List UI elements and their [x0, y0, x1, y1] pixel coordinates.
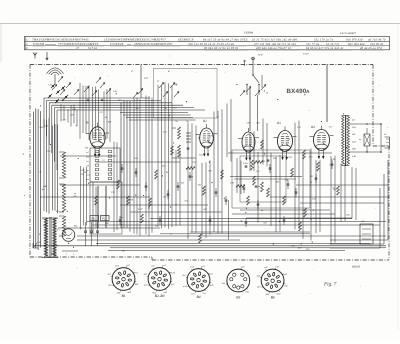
svg-text:B45045: B45045	[352, 266, 361, 269]
svg-text:u32: u32	[86, 156, 89, 159]
svg-text:B2–B0: B2–B0	[155, 294, 165, 298]
svg-text:14·47: 14·47	[303, 53, 309, 56]
svg-text:7x1: 7x1	[202, 292, 205, 295]
svg-text:09 861 08 12 91 61 99 91: 09 861 08 12 91 61 99 91	[204, 46, 239, 50]
svg-text:4NN824OU360R49R9VZ87: 4NN824OU360R49R9VZ87	[134, 42, 173, 46]
svg-text:14·47: 14·47	[258, 53, 264, 56]
svg-text:S31: S31	[310, 175, 313, 178]
svg-text:B3: B3	[236, 296, 240, 300]
svg-text:7MAUSSNM84E50CAERS36A4R97940S: 7MAUSSNM84E50CAERS36A4R97940S	[32, 37, 89, 41]
svg-text:1e9: 1e9	[86, 165, 89, 168]
svg-text:6·47-9+6(9)677: 6·47-9+6(9)677	[340, 32, 357, 35]
svg-text:P.: P.	[25, 47, 28, 50]
svg-text:a6 7a5 46 70: a6 7a5 46 70	[368, 37, 386, 41]
svg-text:CS5EE2E: CS5EE2E	[110, 42, 124, 46]
svg-text:5·17 24: 5·17 24	[88, 46, 97, 50]
svg-text:B46 x: B46 x	[52, 253, 57, 256]
svg-text:84 65 63 427 97a a1 6a1 41: 84 65 63 427 97a a1 6a1 41	[306, 46, 344, 50]
svg-text:C31: C31	[111, 191, 115, 194]
svg-text:10r: 10r	[175, 120, 178, 123]
svg-text:532 170 2a 7a: 532 170 2a 7a	[314, 37, 334, 41]
svg-text:53s: 53s	[186, 120, 189, 123]
svg-text:B6: B6	[271, 296, 275, 300]
svg-text:U3O3M: U3O3M	[33, 42, 44, 46]
svg-text:S51: S51	[184, 199, 187, 202]
svg-text:ww4: ww4	[86, 174, 90, 177]
svg-text:aB1: aB1	[352, 133, 356, 136]
svg-text:48 44 45 aa 874: 48 44 45 aa 874	[360, 46, 382, 50]
svg-text:enn: enn	[86, 179, 89, 181]
svg-text:C:: C:	[26, 38, 29, 41]
svg-text:6·3: 6·3	[57, 229, 60, 232]
svg-text:B4: B4	[197, 295, 201, 299]
svg-text:C41: C41	[256, 170, 260, 173]
svg-text:wn1: wn1	[275, 266, 279, 269]
svg-text:BX490: BX490	[287, 88, 307, 95]
svg-text:B4·: B4·	[311, 125, 316, 129]
svg-text:14204a: 14204a	[244, 31, 254, 35]
svg-text:mn1: mn1	[115, 265, 119, 268]
svg-text:a99 643 346 aa 756 07 18: a99 643 346 aa 756 07 18	[256, 46, 292, 50]
svg-text:8r1: 8r1	[183, 274, 186, 277]
svg-text:B1: B1	[86, 121, 90, 125]
svg-text:S41: S41	[198, 184, 201, 187]
svg-text:x: x	[72, 254, 74, 256]
svg-text:6X5R9EC8: 6X5R9EC8	[178, 37, 194, 41]
svg-text:64 a15 55 a4 9a 84 27 46a: 64 a15 55 a4 9a 84 27 46a	[203, 37, 239, 41]
svg-text:916 978 810: 916 978 810	[346, 37, 363, 41]
svg-text:vsu: vsu	[86, 170, 89, 172]
svg-text:B45: B45	[74, 225, 77, 228]
svg-text:C11: C11	[118, 99, 121, 102]
svg-text:m81: m81	[277, 293, 281, 296]
svg-text:7su: 7su	[86, 160, 89, 163]
svg-text:R1: R1	[109, 171, 112, 174]
svg-text:C: C	[26, 43, 28, 46]
svg-text:S41: S41	[122, 249, 125, 252]
svg-text:Fig. 7: Fig. 7	[323, 282, 337, 288]
svg-text:C11: C11	[100, 111, 103, 114]
svg-text:15UAO90WUNRWMEZMXX6UC14MZE4V7: 15UAO90WUNRWMEZMXX6UC14MZE4V7	[104, 37, 166, 41]
svg-text:B3: B3	[277, 121, 281, 125]
svg-text:0·93: 0·93	[55, 244, 59, 247]
svg-text:a5 31 75 413 3a7 66a 242 48 49: a5 31 75 413 3a7 66a 242 48 496	[252, 37, 298, 41]
svg-text:B2: B2	[203, 119, 207, 123]
svg-text:x: x	[65, 254, 67, 256]
svg-text:A: A	[306, 89, 310, 95]
svg-text:B1: B1	[122, 294, 126, 298]
svg-text:SVES: SVES	[240, 37, 248, 41]
svg-text:C 27: C 27	[138, 208, 143, 211]
svg-text:F4B: F4B	[351, 155, 356, 158]
svg-text:a01: a01	[361, 220, 364, 223]
